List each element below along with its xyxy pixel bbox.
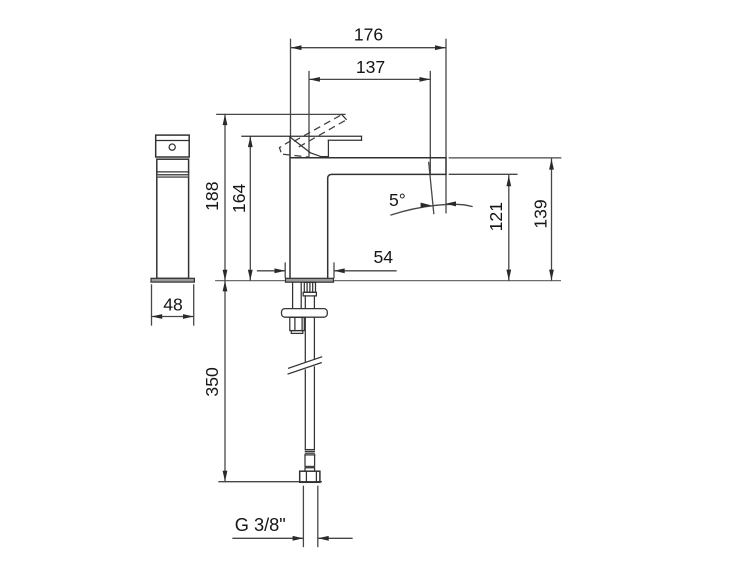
svg-text:48: 48: [163, 295, 183, 315]
svg-text:164: 164: [229, 184, 249, 214]
svg-text:350: 350: [202, 367, 222, 397]
svg-text:121: 121: [486, 202, 506, 231]
svg-text:5°: 5°: [389, 190, 406, 210]
svg-text:G 3/8": G 3/8": [235, 515, 286, 535]
svg-text:176: 176: [354, 24, 384, 44]
svg-text:188: 188: [202, 181, 222, 211]
svg-text:139: 139: [530, 199, 550, 228]
svg-text:137: 137: [356, 57, 385, 77]
svg-text:54: 54: [374, 247, 394, 267]
